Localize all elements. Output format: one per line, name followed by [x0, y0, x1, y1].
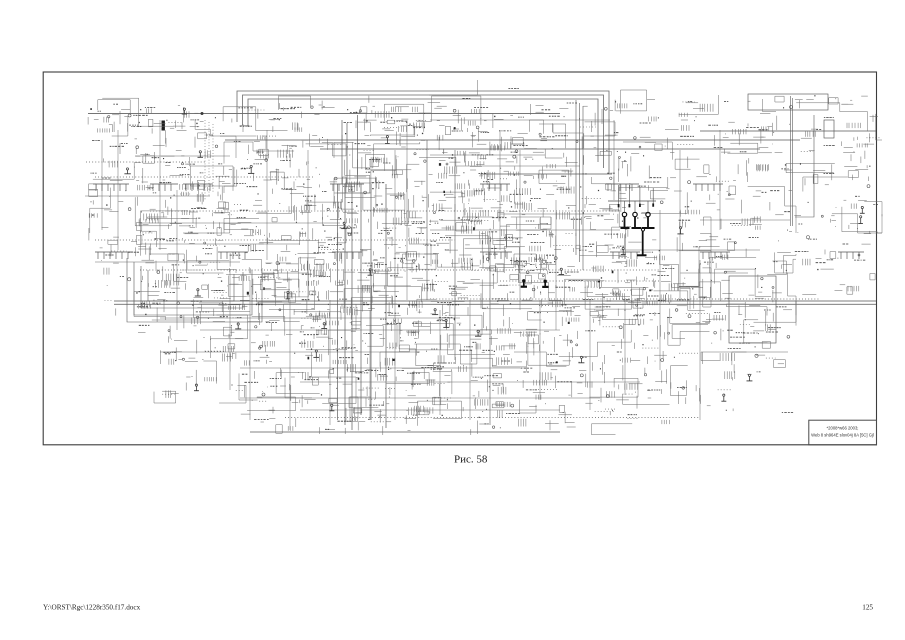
wire cluster region x135-230 y128-150: [136, 128, 236, 158]
grounded stem with foot (bold): [637, 228, 647, 255]
device box A3 (right, lower): [729, 276, 776, 343]
contact blobs scattered (filled components): [90, 108, 651, 380]
wire cluster region x425-545 y225-265: [431, 217, 551, 273]
wire cluster region x790-876 y132-150: [801, 133, 880, 147]
wire cluster region x520-640 y405-428: [529, 405, 638, 434]
wire cluster region x545-625 y150-185: [539, 150, 627, 193]
wire: double bus y304: [114, 303, 876, 305]
connector pin X1 (ball top): [621, 212, 630, 228]
wire: dotted net y211: [150, 210, 620, 212]
wire cluster region x135-230 y150-185: [135, 150, 234, 191]
wire cluster region x140-430 y262-312: [134, 254, 437, 320]
wire cluster region x665-782 y312-360: [667, 304, 785, 368]
connector pin X3 (ball top): [642, 212, 655, 228]
wire cluster region x625-705 y132-150: [634, 136, 695, 151]
wire cluster region x240-350 y360-405: [239, 352, 356, 407]
junction node dot: [201, 112, 204, 115]
bus rail group y184: [93, 184, 723, 191]
wire cluster region x425-545 y185-225: [428, 188, 547, 231]
wire cluster region x705-790 y128-150: [714, 129, 774, 154]
wire cluster region x352-520 y405-431: [346, 397, 526, 435]
wire: vertical nets x576-582: [576, 100, 583, 270]
wire: net y174: [480, 173, 612, 175]
wire: top bus line 1: [237, 91, 609, 174]
wire cluster region x545-625 y132-150: [539, 124, 618, 158]
wire cluster region x130-160 y305-340: [137, 306, 157, 332]
wire: vertical net x490: [489, 240, 491, 425]
title stamp box: [809, 420, 877, 445]
wire cluster region x665-782 y360-400: [667, 352, 789, 404]
wire: right vertical x814: [795, 115, 814, 217]
rail over connector pins: [608, 200, 656, 202]
svg-text:*2008*w66 2003;: *2008*w66 2003;: [827, 426, 859, 431]
wire cluster region x135-230 y225-265: [136, 217, 241, 273]
wire: long horizontal net y140: [225, 139, 800, 141]
wire cluster region x230-340 y128-150: [234, 134, 346, 158]
wire cluster region x705-790 y150-185: [710, 151, 793, 182]
wire cluster region x88-135 y150-185: [89, 158, 141, 190]
wire cluster region x88-285 y106-128: [88, 98, 295, 136]
wire cluster region x790-876 y262-300: [802, 269, 875, 295]
wire cluster region x625-705 y225-265: [627, 217, 714, 273]
wire cluster region x95-140 y265-312: [104, 268, 150, 316]
wire cluster region x705-790 y225-265: [699, 226, 796, 273]
wire cluster region x350-520 y360-405: [350, 352, 522, 409]
contact blobs above connector: [618, 203, 654, 207]
wire: long vertical skeleton nets: [102, 120, 720, 430]
wire: dotted net y240: [95, 239, 455, 241]
wire cluster region x340-425 y150-185: [334, 142, 426, 193]
wire cluster region x640-782 y405-420: [662, 406, 793, 424]
device box A2 (right): [824, 120, 834, 138]
relay coil K1 (filled): [162, 121, 165, 131]
wire cluster region x88-237 y100-106: [113, 104, 180, 106]
wire cluster region x430-705 y262-312: [424, 254, 711, 320]
wire cluster region x340-425 y185-225: [334, 178, 427, 229]
wire: long horizontal net y149: [320, 148, 760, 150]
wire cluster region x240-352 y405-430: [241, 397, 358, 434]
wire: double bus y301: [114, 300, 876, 302]
wire cluster region x88-135 y128-150: [92, 128, 137, 154]
wire: right vertical pair x790: [791, 96, 793, 226]
wire cluster region x160-240 y360-395: [154, 360, 246, 403]
wire: vertical net x427: [426, 140, 428, 300]
wire cluster region x160-350 y312-360: [161, 304, 357, 365]
border frame of schematic sheet: [43, 72, 876, 445]
wire cluster region x625-705 y185-225: [619, 177, 700, 227]
bold plug symbol P1: [521, 279, 527, 287]
svg-text:125: 125: [862, 604, 873, 612]
wire cluster region x350-520 y312-360: [351, 312, 526, 367]
wire cluster region x237-612 y88-106: [278, 80, 577, 110]
wire cluster region x705-790 y185-225: [706, 186, 796, 233]
device box A1 (top right): [748, 94, 828, 110]
wire cluster region x340-425 y120-150: [334, 120, 429, 158]
wire: dotted net y417: [285, 417, 700, 419]
connector pin X2 (ball top): [632, 212, 642, 228]
wire cluster region x625-705 y150-185: [623, 142, 709, 189]
wire: right rail y131: [700, 130, 876, 132]
wire cluster region x230-340 y150-185: [224, 142, 337, 193]
wire cluster region x790-876 y185-225: [794, 177, 882, 233]
wire cluster region x770-876 y95-132: [773, 95, 882, 140]
wire cluster region x230-340 y225-265: [230, 217, 355, 273]
wire: long horizontal skeleton nets: [85, 120, 790, 410]
wire cluster region x230-340 y185-225: [224, 177, 346, 233]
wire cluster region x88-135 y225-265: [89, 228, 139, 264]
wire cluster region x425-545 y128-150: [437, 120, 554, 154]
wire: dotted vertical cluster x205-213: [205, 120, 213, 200]
bold plug symbol P2: [542, 280, 548, 287]
wire cluster region x520-665 y360-405: [514, 352, 670, 413]
wire: dotted net y162: [86, 161, 205, 163]
wire cluster region x520-665 y312-360: [521, 312, 667, 365]
wire: dotted net y281: [500, 280, 660, 282]
wire: bottom net y432: [250, 431, 560, 433]
wire: top bus line 2: [243, 95, 604, 168]
wire cluster region x790-876 y150-185: [786, 151, 870, 186]
wire: central vertical bus: [338, 115, 387, 430]
wires above connector pins: [619, 185, 654, 212]
wire: nested loop nets left: [127, 258, 262, 322]
wire cluster region x545-625 y185-225: [546, 177, 631, 229]
wire cluster region x545-625 y225-265: [539, 227, 629, 265]
wire cluster region x425-545 y150-185: [419, 150, 547, 189]
wire cluster region x340-425 y225-265: [342, 225, 439, 273]
svg-text:Рис. 58: Рис. 58: [454, 454, 488, 466]
wire: dotted net y177: [95, 176, 315, 178]
bus rail group y252: [95, 252, 864, 259]
svg-text:Web 8 sh964E slov04j 8A [5C] G: Web 8 sh964E slov04j 8A [5C] Gjl: [811, 433, 874, 438]
wire cluster region x790-876 y225-265: [795, 226, 871, 265]
wire cluster region x612-770 y98-130: [615, 90, 776, 131]
wire cluster region x135-230 y185-225: [135, 185, 234, 233]
wire cluster region x705-790 y262-345: [699, 254, 796, 348]
wire: vertical net x455: [454, 150, 456, 360]
wire: main top horizontal net: [88, 113, 560, 115]
svg-text:Y:\ORST\Rgc\1228r350.f17.docx: Y:\ORST\Rgc\1228r350.f17.docx: [43, 604, 141, 612]
wire: dotted net y270: [140, 269, 660, 271]
wire: top bus line 3: [248, 99, 598, 162]
wire cluster region x88-135 y185-225: [89, 188, 131, 233]
wire cluster region x285-612 y104-128: [279, 96, 615, 136]
wire: dotted net y299: [430, 298, 820, 300]
